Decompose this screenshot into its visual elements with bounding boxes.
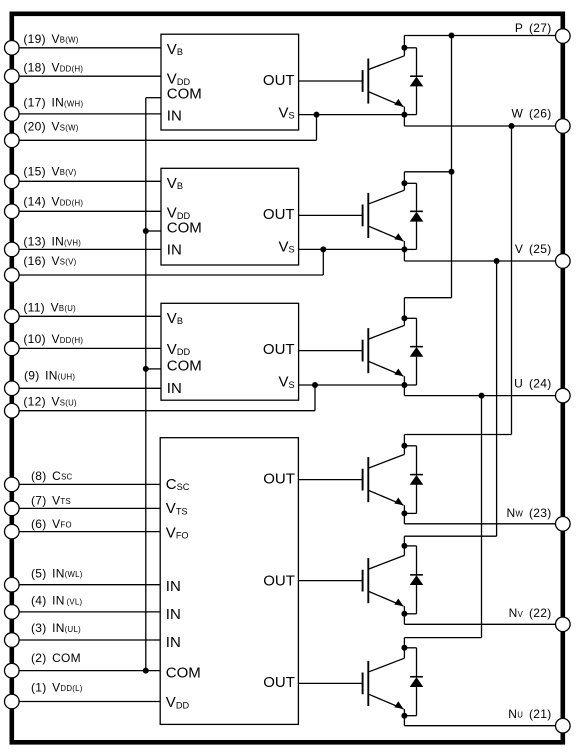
svg-text:OUT: OUT (263, 206, 295, 223)
wire pin 12 to VS jog (19, 410, 315, 412)
diode D1 (freewheel across Q1) (404, 47, 416, 49)
wire pin 19 to driver block (19, 47, 161, 49)
svg-text:(11)VB(U): (11)VB(U) (23, 300, 76, 314)
terminal pin 11 (5, 309, 20, 324)
wire U3 COM stub (146, 368, 161, 370)
wire Q1 collector to P rail (403, 36, 405, 48)
terminal pin 1 (5, 694, 20, 709)
svg-text:(20)VS(W): (20)VS(W) (23, 120, 78, 134)
P rail wire (404, 35, 555, 37)
node Q4 collector (401, 443, 407, 449)
U bus wire to Q6 collector (481, 396, 483, 638)
transistor Q6 (U-phase low side) (298, 682, 362, 684)
wire pin 1 to driver block (19, 701, 160, 703)
svg-text:IN: IN (166, 634, 181, 651)
gate driver block U1 (W-phase high side) (161, 34, 299, 130)
terminal pin 13 (5, 242, 20, 257)
terminal pin 2 (5, 663, 20, 678)
svg-text:(10)VDD(H): (10)VDD(H) (23, 332, 83, 346)
svg-text:(4)IN (VL): (4)IN (VL) (31, 594, 82, 608)
svg-text:OUT: OUT (263, 470, 295, 487)
terminal pin 5 (5, 577, 20, 592)
svg-text:(15)VB(V): (15)VB(V) (23, 164, 76, 178)
wire W output line (403, 115, 405, 126)
svg-text:IN: IN (167, 107, 182, 124)
wire NW output line (403, 513, 405, 523)
wire pin 18 to driver block (19, 75, 161, 77)
terminal pin 16 (5, 268, 20, 283)
svg-text:COM: COM (166, 665, 201, 682)
terminal V (25) (556, 254, 571, 269)
node COM bus to pin 2 junction (143, 668, 149, 674)
terminal pin 10 (5, 341, 20, 356)
wire Q2 collector feed (404, 171, 451, 173)
terminal W (26) (556, 119, 571, 134)
terminal pin 18 (5, 69, 20, 84)
node P rail bus junction (449, 33, 455, 39)
wire NU output line (403, 716, 405, 726)
gate driver block U2 (V-phase high side) (161, 168, 299, 265)
svg-text:CSC: CSC (166, 476, 190, 493)
svg-text:VS: VS (278, 104, 294, 121)
node Q6 emitter (401, 713, 407, 719)
svg-text:NU (21): NU (21) (508, 707, 551, 721)
wire NV output line (403, 614, 405, 625)
wire pin 10 to driver block (19, 347, 161, 349)
terminal pin 4 (5, 605, 20, 620)
diode D4 (freewheel across Q4) (404, 445, 416, 447)
wire pin 11 to driver block (19, 315, 161, 317)
svg-text:(18)VDD(H): (18)VDD(H) (23, 61, 83, 75)
svg-text:IN: IN (166, 606, 181, 623)
svg-text:(17)IN(WH): (17)IN(WH) (23, 96, 83, 110)
node P bus V-phase junction (449, 169, 455, 175)
svg-text:(1)VDD(L): (1)VDD(L) (31, 681, 83, 695)
wire U2 VS to emitter node (V-phase) (299, 248, 405, 250)
node U3 COM junction (143, 366, 149, 372)
wire pin 7 to driver block (19, 507, 160, 509)
terminal pin 15 (5, 174, 20, 189)
wire pin 16 to VS jog (19, 274, 323, 276)
terminal U (24) (556, 388, 571, 403)
svg-text:OUT: OUT (263, 72, 295, 89)
svg-text:(19)VB(W): (19)VB(W) (23, 32, 78, 46)
node VS jog junction (W-phase) (314, 112, 320, 118)
svg-text:(9)IN(UH): (9)IN(UH) (24, 369, 75, 383)
wire pin 20 to VS jog (19, 139, 316, 141)
W bus wire to Q4 collector (511, 126, 513, 435)
node Q5 collector (401, 543, 407, 549)
wire U2 COM stub (146, 230, 161, 232)
wire pin 2 to driver block (19, 670, 160, 672)
terminal NW (23) (556, 517, 571, 532)
node Q1 emitter (401, 112, 407, 118)
svg-text:(14)VDD(H): (14)VDD(H) (23, 195, 83, 209)
terminal pin 3 (5, 633, 20, 648)
node W line bus junction (509, 123, 515, 129)
node Q4 emitter (401, 510, 407, 516)
diode D3 (freewheel across Q3) (404, 317, 416, 319)
terminal NU (21) (556, 718, 571, 733)
transistor Q3 (U-phase high side) (299, 350, 363, 352)
svg-text:VS: VS (278, 238, 294, 255)
svg-text:VDD: VDD (166, 694, 190, 711)
transistor Q4 (W-phase low side) (298, 479, 362, 481)
wire pin 9 to driver block (19, 387, 161, 389)
wire pin 14 to driver block (19, 210, 161, 212)
svg-text:OUT: OUT (263, 341, 295, 358)
diode D2 (freewheel across Q2) (404, 182, 416, 184)
wire pin 6 to driver block (19, 531, 160, 533)
node V line bus junction (494, 258, 500, 264)
svg-text:(13)IN(VH): (13)IN(VH) (23, 235, 81, 249)
wire U3 VS to emitter node (U-phase) (299, 384, 405, 386)
svg-text:U (24): U (24) (514, 376, 551, 390)
gate driver block U3 (U-phase high side) (161, 303, 299, 400)
svg-text:(16)VS(V): (16)VS(V) (23, 254, 76, 268)
terminal pin 20 (5, 133, 20, 148)
node VS jog junction (U-phase) (312, 382, 318, 388)
svg-text:(2)COM: (2)COM (31, 651, 81, 665)
transistor Q5 (V-phase low side) (298, 580, 362, 582)
wire U1 VS to emitter node (W-phase) (299, 114, 405, 116)
transistor Q1 (W-phase high side) (299, 80, 363, 82)
svg-text:VB: VB (167, 310, 183, 327)
wire U output line (403, 385, 405, 396)
terminal P (27) (556, 29, 571, 44)
terminal pin 17 (5, 107, 20, 122)
svg-text:VB: VB (167, 175, 183, 192)
svg-text:VS: VS (278, 374, 294, 391)
P bus wire to Q2/Q3 collectors (451, 36, 453, 298)
diode D6 (freewheel across Q6) (404, 647, 416, 649)
svg-text:VTS: VTS (166, 500, 188, 517)
terminal pin 8 (5, 477, 20, 492)
wire pin 8 to driver block (19, 483, 160, 485)
svg-text:COM: COM (167, 358, 202, 375)
V bus wire to Q5 collector (496, 261, 498, 536)
node U2 COM junction (143, 228, 149, 234)
node Q6 collector (401, 645, 407, 651)
wire pin 4 to driver block (19, 611, 160, 613)
terminal pin 19 (5, 41, 20, 56)
transistor Q2 (V-phase high side) (299, 214, 363, 216)
wire pin 3 to driver block (19, 639, 160, 641)
svg-text:W (26): W (26) (512, 107, 552, 121)
node Q1 collector (401, 45, 407, 51)
svg-text:(7)VTS: (7)VTS (31, 493, 71, 507)
svg-text:IN: IN (166, 578, 181, 595)
svg-text:P (27): P (27) (515, 21, 552, 35)
wire U1 COM stub (146, 97, 161, 99)
node Q2 emitter (401, 246, 407, 252)
svg-text:(12)VS(U): (12)VS(U) (23, 395, 77, 409)
svg-text:IN: IN (167, 242, 182, 259)
node Q3 collector (401, 315, 407, 321)
svg-text:NV (22): NV (22) (509, 606, 552, 620)
node VS jog junction (V-phase) (320, 246, 326, 252)
svg-text:VDD: VDD (167, 341, 191, 358)
gate driver block U4 (low side driver) (160, 438, 298, 725)
node Q2 collector (401, 180, 407, 186)
terminal pin 6 (5, 524, 20, 539)
wire V output line (403, 249, 405, 261)
svg-text:(3)IN(UL): (3)IN(UL) (31, 621, 81, 635)
terminal NV (22) (556, 617, 571, 632)
svg-text:COM: COM (167, 85, 202, 102)
node Q5 emitter (401, 611, 407, 617)
terminal pin 7 (5, 501, 20, 516)
svg-text:OUT: OUT (263, 573, 295, 590)
terminal pin 14 (5, 204, 20, 219)
wire pin 15 to driver block (19, 180, 161, 182)
wire pin 13 to driver block (19, 248, 161, 250)
wire pin 5 to driver block (19, 584, 160, 586)
svg-text:COM: COM (167, 220, 202, 237)
svg-text:(8)CSC: (8)CSC (31, 469, 73, 483)
node Q3 emitter (401, 382, 407, 388)
terminal pin 9 (5, 381, 20, 396)
svg-text:V (25): V (25) (515, 242, 552, 256)
svg-text:IN: IN (167, 380, 182, 397)
terminal pin 12 (5, 403, 20, 418)
wire pin 17 to driver block (19, 113, 161, 115)
svg-text:OUT: OUT (263, 674, 295, 691)
diode D5 (freewheel across Q5) (404, 545, 416, 547)
svg-text:(5)IN(WL): (5)IN(WL) (31, 567, 83, 581)
svg-text:VFO: VFO (166, 524, 189, 541)
svg-text:(6)VFO: (6)VFO (31, 517, 72, 531)
svg-text:VB: VB (167, 41, 183, 58)
node U line bus junction (479, 393, 485, 399)
svg-text:NW (23): NW (23) (507, 506, 552, 520)
COM bus wire (145, 98, 147, 671)
